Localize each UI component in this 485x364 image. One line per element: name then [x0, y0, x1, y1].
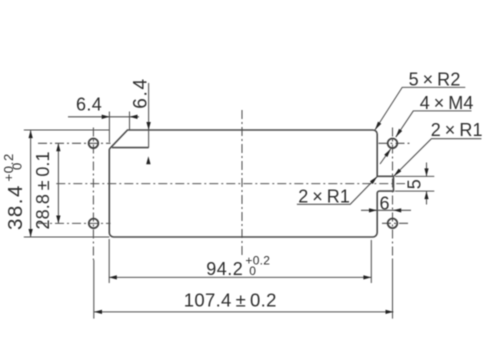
left top hole horizontal centerline: [38, 142, 111, 144]
leader 2xR1 left: [297, 177, 377, 205]
5 dim line above: [426, 163, 428, 177]
arrow leader 5xR2 arrow: [375, 122, 381, 131]
5 dim line below: [426, 191, 428, 204]
arrowheads: [29, 115, 429, 314]
left bottom hole horizontal centerline: [38, 222, 111, 224]
hole M4 bottom-left: [89, 219, 99, 229]
94.2 ext right: [370, 240, 372, 283]
svg-text:5: 5: [405, 179, 425, 189]
38.4 dimension line: [30, 130, 32, 236]
94.2 dim line: [109, 276, 371, 278]
arrow 6.4 vert floating arrow (up): [146, 156, 150, 164]
arrow 94.2 left: [109, 275, 117, 279]
arrow 5 bottom (up): [424, 191, 428, 199]
arrow leader 2xR1 left arrow: [370, 176, 378, 184]
leader 4xM4: [396, 111, 472, 137]
arrow floating hole arrow: [384, 149, 391, 157]
svg-text:5 × R2: 5 × R2: [409, 70, 461, 90]
arrow 28.8 bottom (down): [56, 216, 60, 224]
svg-text:28.8 ± 0.1: 28.8 ± 0.1: [33, 151, 53, 229]
5 dim ext top: [395, 175, 434, 177]
right bottom hole horizontal centerline: [382, 222, 408, 224]
arrow leader 2xR1 top arrow: [394, 169, 402, 177]
arrow 38.4 bottom (down): [29, 229, 33, 237]
svg-text:6.4: 6.4: [76, 95, 102, 115]
vertical plate centerline: [241, 110, 243, 255]
svg-text:107.4 ± 0.2: 107.4 ± 0.2: [184, 289, 277, 310]
6 dim line: [361, 209, 411, 211]
leader 2xR1 top: [394, 139, 482, 176]
arrow 6.4 vert top arrow (down): [146, 122, 150, 130]
28.8 dimension line: [57, 143, 59, 223]
6.4 horiz ext line at plate left edge: [108, 112, 110, 143]
plate cutout outline: [109, 130, 393, 237]
chamfer ledge line: [112, 147, 149, 149]
107.4 dim line: [94, 311, 393, 313]
svg-text:2 × R1: 2 × R1: [431, 120, 483, 140]
arrow 94.2 right: [363, 275, 371, 279]
6.4 vertical dim line inside plate: [148, 130, 150, 148]
leader 5xR2: [375, 87, 465, 130]
svg-text:0: 0: [249, 264, 256, 278]
arrow 6.4 horiz left arrow (points right): [102, 115, 110, 119]
svg-text:6.4: 6.4: [130, 77, 151, 109]
arrow 6 left (points right): [369, 208, 377, 212]
5 dim ext bottom: [395, 190, 434, 192]
svg-text:6: 6: [380, 194, 390, 214]
bottom edge extension to left (38.4): [24, 236, 110, 238]
arrow 107.4 left: [94, 310, 102, 314]
thin lines: dimension + extension: [24, 83, 482, 319]
centerlines dash-dot: [38, 110, 411, 260]
arrow 5 top (down): [424, 168, 428, 176]
arrow leader 4xM4 arrow: [396, 129, 403, 137]
arrow 6.4 horiz right arrow (points left): [130, 115, 138, 119]
left holes vertical centerline: [92, 128, 94, 261]
6.4 vertical dim line above plate: [148, 83, 150, 130]
right holes vertical centerline: [392, 128, 394, 261]
hole M4 top-right: [388, 139, 398, 149]
svg-text:4 × M4: 4 × M4: [420, 93, 474, 113]
hole M4 top-left: [89, 139, 99, 149]
horizontal main centerline: [56, 183, 405, 185]
dim text 38.4 +0.2/0 (rotated): [1, 153, 27, 230]
svg-text:2 × R1: 2 × R1: [298, 186, 350, 206]
svg-text:94.2: 94.2: [206, 259, 243, 279]
hole M4 bottom-right: [388, 219, 398, 229]
right top hole horizontal centerline: [379, 142, 412, 144]
svg-text:0: 0: [9, 163, 24, 170]
94.2 ext left: [108, 239, 110, 283]
arrow 38.4 top (up): [29, 130, 33, 138]
top edge extension to left (38.4): [24, 129, 110, 131]
107.4 ext right (solid lower part): [392, 260, 394, 319]
arrow 107.4 right: [386, 310, 394, 314]
arrow 6 right (points left): [393, 208, 401, 212]
svg-text:38.4: 38.4: [4, 184, 27, 230]
floating hole leader: [380, 149, 391, 164]
arrow 28.8 top (up): [56, 143, 60, 151]
107.4 ext left (solid lower part): [93, 260, 95, 319]
6.4 horizontal dim line: [68, 116, 139, 118]
6.4 horiz ext line at chamfer start: [129, 112, 131, 131]
